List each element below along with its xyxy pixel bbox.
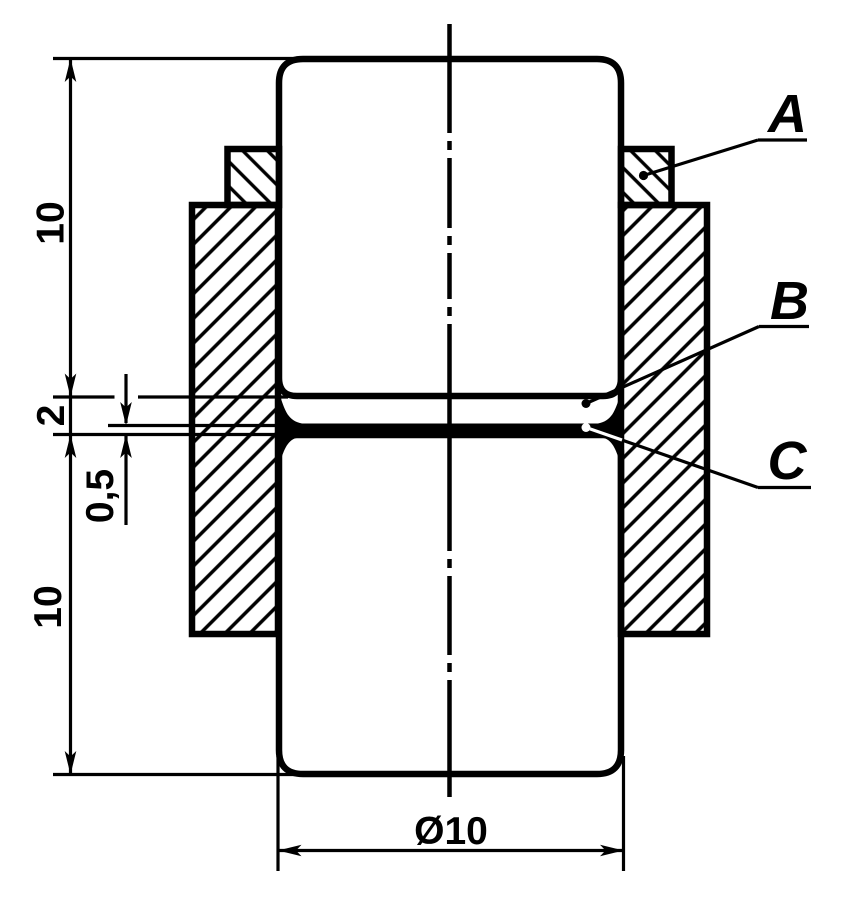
- arrow down bottom: [65, 751, 77, 775]
- vertical dimension line: [69, 59, 72, 775]
- svg-text:Ø10: Ø10: [414, 810, 488, 853]
- left die block hatched: [192, 205, 278, 634]
- svg-text:2: 2: [30, 405, 73, 427]
- extension line upper gap face right part: [138, 395, 288, 398]
- small collar block upper left: [228, 149, 280, 205]
- diameter dimension line: [278, 849, 624, 852]
- arrow up at foil bottom: [65, 435, 77, 459]
- label C underline: [758, 486, 811, 489]
- right die block hatched: [621, 205, 707, 634]
- leader B: [586, 327, 759, 404]
- leader C white segment over meniscus: [590, 429, 622, 440]
- extension line foil bottom: [53, 433, 295, 436]
- leader C: [586, 428, 758, 488]
- dimension line 0,5 upper leg: [124, 374, 127, 423]
- extension line upper gap face: [53, 395, 115, 398]
- arrow up top: [65, 59, 77, 83]
- extension line bottom face: [53, 773, 310, 776]
- arrow left diameter: [278, 845, 302, 857]
- label A underline: [758, 138, 807, 141]
- arrow down 0,5: [120, 402, 132, 426]
- extension line foil top: [108, 424, 295, 427]
- svg-text:0,5: 0,5: [79, 469, 122, 523]
- svg-text:C: C: [768, 431, 808, 491]
- leader dot B: [582, 399, 591, 408]
- dimension line 0,5 lower leg: [124, 436, 127, 525]
- svg-text:B: B: [770, 271, 809, 331]
- arrow up 0,5: [120, 435, 132, 459]
- arrow right diameter: [600, 845, 624, 857]
- extension line diameter left: [276, 756, 279, 871]
- small collar block upper right A: [621, 149, 672, 205]
- leader dot A: [639, 171, 648, 180]
- lower electrode outline: [279, 435, 621, 774]
- centerline dash-dot: [447, 24, 452, 797]
- svg-text:10: 10: [30, 201, 73, 244]
- arrow down at gap: [65, 374, 77, 398]
- extension line diameter right: [622, 756, 625, 871]
- upper electrode outline: [279, 59, 621, 396]
- leader dot C white: [582, 423, 591, 432]
- svg-text:10: 10: [27, 585, 70, 628]
- extension line top face: [53, 57, 310, 60]
- label B underline: [759, 325, 809, 328]
- svg-text:A: A: [766, 84, 807, 144]
- specimen foil band with flared menisci: [281, 399, 619, 459]
- leader A: [644, 140, 759, 176]
